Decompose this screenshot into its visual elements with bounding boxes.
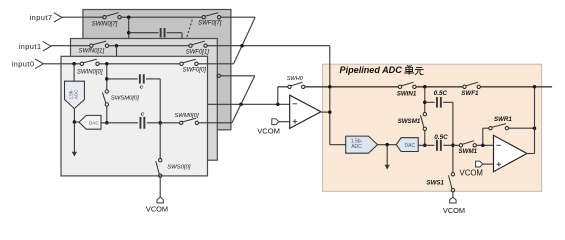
svg-text:SWSM1: SWSM1 [398, 118, 421, 125]
svg-text:SWR1: SWR1 [494, 116, 512, 123]
svg-text:0.5C: 0.5C [434, 134, 448, 141]
svg-text:VCOM: VCOM [146, 205, 168, 214]
svg-text:SWM0[0]: SWM0[0] [174, 113, 199, 119]
svg-text:0.5C: 0.5C [434, 90, 448, 97]
svg-text:SWS0[0]: SWS0[0] [167, 165, 191, 171]
svg-text:DAC: DAC [89, 120, 100, 125]
svg-text:SWSM0[0]: SWSM0[0] [111, 96, 140, 102]
svg-text:SWH0: SWH0 [287, 76, 304, 82]
svg-text:input1: input1 [19, 42, 42, 51]
svg-text:VCOM: VCOM [257, 127, 280, 136]
svg-text:input0: input0 [12, 59, 35, 68]
svg-text:SWIN0[7]: SWIN0[7] [92, 21, 118, 27]
svg-text:input7: input7 [30, 13, 53, 22]
svg-text:VCOM: VCOM [443, 206, 465, 215]
svg-text:ADC: ADC [351, 144, 362, 150]
svg-text:C: C [140, 85, 144, 91]
svg-text:SWM1: SWM1 [459, 148, 478, 155]
svg-text:SWS1: SWS1 [426, 179, 444, 186]
svg-text:SWF0[0]: SWF0[0] [183, 68, 207, 74]
svg-text:C: C [141, 112, 145, 118]
svg-text:SWIN0[0]: SWIN0[0] [77, 69, 103, 75]
svg-text:SWIN0[1]: SWIN0[1] [78, 48, 104, 54]
svg-text:DAC: DAC [405, 143, 416, 149]
svg-text:SWF0[7]: SWF0[7] [198, 21, 222, 27]
svg-text:SWF0[1]: SWF0[1] [186, 49, 210, 55]
svg-text:SWIN1: SWIN1 [397, 91, 417, 98]
svg-text:VCOM: VCOM [460, 169, 483, 178]
svg-text:Pipelined ADC: Pipelined ADC [340, 65, 403, 75]
svg-text:SWF1: SWF1 [461, 90, 479, 97]
svg-text:ADC: ADC [74, 89, 79, 99]
